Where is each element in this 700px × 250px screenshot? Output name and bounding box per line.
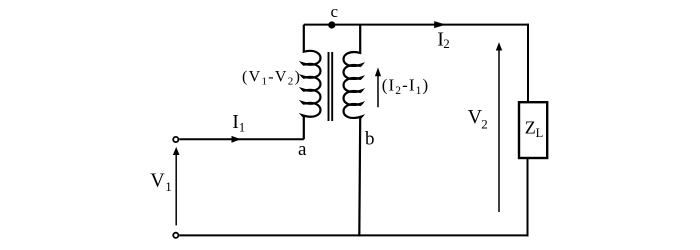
wire top horizontal (c node rail to right corner) [304,24,529,26]
svg-text:2: 2 [481,116,488,131]
svg-text:1: 1 [165,179,172,194]
svg-text:a: a [298,139,307,160]
arrow I1 on left wire [232,136,241,143]
arrow V1 (voltage reference, pointing up) [175,154,177,226]
arrow I2 on top wire [434,21,446,28]
arrow V2 (voltage reference, pointing up) [498,50,500,212]
svg-text:1: 1 [239,120,246,135]
wire right vertical lower (ZL to bottom corner) [527,158,529,236]
svg-text:(I2-I1): (I2-I1) [382,76,430,97]
transformer primary winding (node a to node c), 5 turns [302,25,320,140]
transformer core line right [331,52,333,121]
wire bottom horizontal [179,234,528,236]
arrow (I2-I1) pointing up beside secondary [377,75,379,107]
svg-text:b: b [365,128,375,149]
wire left horizontal (terminal to node a) [179,138,303,140]
load ZL box [519,102,547,158]
svg-text:(V1-V2): (V1-V2) [242,69,301,88]
terminal bottom-left open circle [173,233,178,238]
transformer secondary winding (node b to node c), 5 turns, continues to bottom wire [344,25,362,237]
svg-text:2: 2 [443,36,450,51]
svg-text:Z: Z [525,117,536,137]
svg-text:L: L [536,126,544,140]
svg-text:V: V [150,170,165,192]
transformer core line left [328,52,330,121]
svg-text:c: c [331,2,339,21]
terminal top-left open circle [173,137,178,142]
node c junction dot [328,21,335,28]
wire right vertical upper (top corner to ZL) [527,24,529,102]
